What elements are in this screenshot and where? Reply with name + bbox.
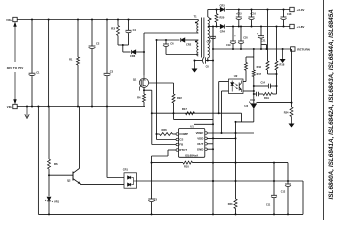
wire: U2 right top pin to R16 xyxy=(243,81,246,83)
svg-text:GND: GND xyxy=(197,147,203,151)
svg-text:CR4: CR4 xyxy=(220,29,226,33)
shunt regulator U3 xyxy=(251,103,257,105)
resistor R10 xyxy=(183,161,193,164)
svg-text:CR1: CR1 xyxy=(123,168,129,172)
terminal +1.8V xyxy=(290,24,294,28)
resistor R6 xyxy=(48,107,50,160)
wire: VDD bus xyxy=(137,180,304,182)
svg-text:36V TO 75V: 36V TO 75V xyxy=(7,66,23,70)
svg-text:C3: C3 xyxy=(110,70,114,74)
capacitor C2 xyxy=(91,20,93,47)
wire: bias feed vertical xyxy=(156,40,158,140)
wire: secondary winding bottom xyxy=(207,58,209,61)
svg-text:R22: R22 xyxy=(177,96,182,100)
wire: sidebar divider line xyxy=(323,0,325,220)
wire: U2 left top pin xyxy=(219,81,229,83)
svg-text:C5: C5 xyxy=(154,198,158,202)
svg-text:C4: C4 xyxy=(133,28,137,32)
resistor R26 to COMP xyxy=(157,133,160,135)
capacitor C18 xyxy=(283,9,285,11)
svg-text:FB: FB xyxy=(179,143,183,147)
resistor R17 (divider) xyxy=(253,57,255,70)
svg-text:ISL6840A, ISL6841A, ISL6842A,: ISL6840A, ISL6841A, ISL6842A, ISL6843A, … xyxy=(328,9,335,200)
wire: clamp/drain vertical xyxy=(143,33,145,76)
U1 pin GND xyxy=(205,148,208,151)
wire: right corner vertical xyxy=(302,181,304,214)
resistor R22 xyxy=(172,94,175,103)
ground arrow on return rail xyxy=(282,48,284,50)
capacitor C14 xyxy=(253,85,255,87)
U1 pin CS xyxy=(176,138,179,141)
terminal VIN- xyxy=(13,104,17,108)
wire: lower left vertical xyxy=(37,107,39,215)
svg-text:C12: C12 xyxy=(281,190,286,193)
transformer T1 core xyxy=(201,18,203,58)
optocoupler U2 arrows xyxy=(235,84,238,86)
capacitor C5 xyxy=(151,162,153,164)
capacitor C20 xyxy=(240,26,242,28)
wire: GND pin drop xyxy=(207,148,213,150)
transformer T1 secondary winding xyxy=(207,10,209,18)
wire: U2 right bottom pin xyxy=(243,90,254,92)
wire: C21 jog to rail xyxy=(261,44,267,46)
svg-text:U2: U2 xyxy=(234,74,238,78)
svg-text:C20: C20 xyxy=(243,37,248,40)
zener diode VR1 xyxy=(48,175,50,196)
annotation 36V TO 75V with arrows xyxy=(14,26,16,63)
terminal +3.3V xyxy=(290,7,294,11)
capacitor C4 xyxy=(128,20,130,31)
terminal VIN+ xyxy=(13,17,17,21)
wire: OUT line xyxy=(207,143,213,145)
resistor R4 xyxy=(143,90,145,94)
wire: R16 top jog to rail xyxy=(246,56,254,58)
capacitor C15 xyxy=(238,9,240,11)
U1 pin RTCT xyxy=(176,149,179,152)
svg-text:OUT: OUT xyxy=(197,142,203,146)
U1 pin FB xyxy=(176,143,179,146)
svg-text:RTCT: RTCT xyxy=(179,148,187,152)
svg-text:CR6: CR6 xyxy=(130,54,136,58)
svg-text:VR1: VR1 xyxy=(54,200,60,204)
wire: VIN+ top rail xyxy=(17,19,198,21)
phase dot secondary xyxy=(210,18,212,20)
wire: Q1 gate stub xyxy=(140,85,142,87)
wire: reset winding top xyxy=(157,39,180,41)
svg-text:V IN+: V IN+ xyxy=(6,18,13,22)
wire: source jog to FB column xyxy=(144,89,152,91)
svg-text:R16: R16 xyxy=(257,66,262,69)
transistor Q2 xyxy=(72,172,74,181)
U1 pin OUT xyxy=(205,143,208,146)
wire: VDD line xyxy=(207,137,236,139)
dual diode CR1 xyxy=(124,173,137,188)
wire: CS pin xyxy=(157,139,177,141)
svg-text:R3: R3 xyxy=(111,27,115,31)
transformer T1 primary winding xyxy=(197,20,199,22)
svg-text:R10: R10 xyxy=(184,165,189,169)
resistor R21 xyxy=(267,9,269,11)
svg-text:CS: CS xyxy=(179,138,183,142)
capacitor C8 xyxy=(195,60,203,62)
svg-text:C11: C11 xyxy=(266,203,271,206)
svg-text:C21: C21 xyxy=(261,40,266,43)
svg-text:V IN-: V IN- xyxy=(7,105,13,109)
wire: Q1 source xyxy=(143,87,145,90)
transformer T1 reset winding xyxy=(197,40,199,43)
svg-text:R1: R1 xyxy=(69,57,73,61)
wire: U2 left bottom pin xyxy=(222,90,229,92)
resistor R17 xyxy=(186,112,195,115)
diode CR6 xyxy=(123,51,131,53)
wire: CS line wrap to feedback column xyxy=(241,113,243,122)
svg-text:C18: C18 xyxy=(287,13,292,16)
wire: VIN- rail xyxy=(17,106,145,108)
svg-text:C6: C6 xyxy=(170,41,174,45)
resistor R1 xyxy=(77,20,79,58)
svg-text:+1.8V: +1.8V xyxy=(297,25,305,29)
U1 pin VREF xyxy=(205,132,208,135)
capacitor C1 xyxy=(31,20,33,74)
svg-text:VREF: VREF xyxy=(196,131,204,135)
svg-text:U3: U3 xyxy=(244,104,248,108)
wire: main secondary-ground vertical xyxy=(212,27,214,215)
wire: RTCT pin loop xyxy=(168,149,176,151)
resistor R23 xyxy=(234,199,237,209)
phase dot reset xyxy=(195,41,197,43)
svg-text:+3.3V: +3.3V xyxy=(297,8,305,12)
svg-text:COMP: COMP xyxy=(179,132,188,136)
svg-text:Q2: Q2 xyxy=(67,179,71,183)
svg-text:+C16: +C16 xyxy=(250,13,256,16)
svg-text:RETURN: RETURN xyxy=(297,47,310,51)
svg-text:R19: R19 xyxy=(264,96,269,100)
svg-text:C2: C2 xyxy=(96,41,100,45)
svg-text:CR2: CR2 xyxy=(186,42,192,46)
wire: reset winding bottom xyxy=(166,54,198,56)
svg-text:R24: R24 xyxy=(284,111,289,115)
wire: FB pin xyxy=(152,144,176,146)
svg-text:C13: C13 xyxy=(250,98,255,102)
U1 pin VDD xyxy=(205,137,208,140)
optocoupler U2 box xyxy=(229,79,244,94)
terminal RETURN xyxy=(291,47,295,51)
capacitor C21 xyxy=(260,26,262,28)
svg-text:R17: R17 xyxy=(257,73,262,76)
svg-text:R18: R18 xyxy=(280,63,285,67)
wire: Q1 drain-source right link xyxy=(149,82,174,84)
diode CR3 xyxy=(208,9,220,11)
wire: Q2 collector xyxy=(79,107,81,169)
wire: CR1 top input xyxy=(106,107,108,178)
chassis ground arrow at input xyxy=(26,107,28,118)
svg-text:+C15: +C15 xyxy=(236,13,242,16)
resistor R24 xyxy=(291,49,293,103)
svg-text:C17: C17 xyxy=(207,41,212,44)
capacitor C6 xyxy=(165,39,167,41)
svg-text:CR3: CR3 xyxy=(220,4,226,8)
wire: R21 bottom to R18 column xyxy=(268,73,277,75)
svg-text:C1: C1 xyxy=(36,71,40,75)
svg-text:R17: R17 xyxy=(182,107,188,111)
wire: VREF line xyxy=(207,132,254,134)
svg-text:ISL684xA: ISL684xA xyxy=(185,153,199,157)
wire: bridge over U1 xyxy=(173,113,175,119)
wire: U3 reference line xyxy=(257,102,292,104)
wire: secondary ground rail RETURN xyxy=(213,48,292,50)
resistor R16 xyxy=(245,57,247,63)
wire: timing line xyxy=(152,162,184,164)
optocoupler U2 LED xyxy=(231,83,234,86)
wire: CS filter line xyxy=(152,112,242,114)
svg-text:R23: R23 xyxy=(228,202,233,206)
wire: primary bottom to clamp node xyxy=(144,32,198,34)
wire: U2 output line xyxy=(194,123,213,125)
svg-text:VDD: VDD xyxy=(197,137,203,141)
svg-text:R4: R4 xyxy=(137,96,141,100)
wire: 1.8V rail xyxy=(208,26,220,28)
U1 pin COMP xyxy=(176,133,179,136)
svg-text:Q1: Q1 xyxy=(133,77,137,81)
svg-text:C14: C14 xyxy=(261,82,266,85)
capacitor C3 xyxy=(106,20,108,74)
phase dot primary xyxy=(195,22,197,24)
capacitor C17 xyxy=(212,26,214,28)
svg-text:U1: U1 xyxy=(190,124,194,128)
capacitor C12 xyxy=(287,163,289,184)
wire: startup feed vertical xyxy=(48,20,50,107)
capacitor C19 xyxy=(232,26,234,28)
wire: bottom rail xyxy=(38,213,303,215)
op-amp U1 controller ISL684xA box xyxy=(179,129,205,158)
ground arrow below R24 xyxy=(291,117,293,127)
svg-text:R20: R20 xyxy=(220,16,225,20)
transistor Q1 (MOSFET) xyxy=(139,78,148,87)
capacitor C11 xyxy=(273,163,275,196)
svg-text:R26: R26 xyxy=(162,128,168,132)
optocoupler U2 transistor xyxy=(238,83,240,91)
resistor R18 xyxy=(276,26,278,28)
svg-text:C19: C19 xyxy=(226,44,231,47)
diode CR2 xyxy=(181,38,185,42)
capacitor C16 xyxy=(251,9,253,11)
resistor R20 xyxy=(216,9,218,11)
capacitor C13 and resistor R19 xyxy=(254,93,257,95)
svg-text:R6: R6 xyxy=(54,162,58,166)
resistor R3 xyxy=(117,20,119,26)
ground arrow below transformer xyxy=(194,61,196,72)
wire: Q2 emitter line xyxy=(79,183,81,186)
diode CR4 xyxy=(220,24,224,28)
wire: R3-C4 junction xyxy=(118,44,129,46)
